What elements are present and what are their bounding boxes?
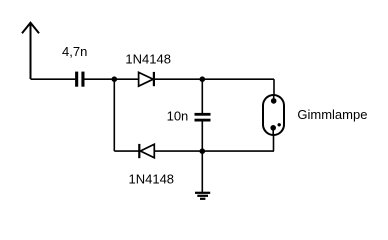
glow lamp LA1 envelope bbox=[263, 95, 284, 135]
wire node B down to C2 bbox=[201, 79, 203, 113]
capacitor C1 bbox=[75, 72, 84, 87]
wire C2 down to bottom wire bbox=[201, 121, 203, 151]
wire left vertical node A to bottom wire bbox=[113, 79, 115, 151]
lamp top electrode dot bbox=[271, 98, 277, 104]
node C junction dot bbox=[200, 148, 206, 154]
antenna symbol bbox=[22, 23, 39, 79]
wire lamp bottom to bottom wire bbox=[273, 135, 275, 151]
wire antenna to C1 bbox=[31, 78, 76, 80]
svg-text:1N4148: 1N4148 bbox=[129, 172, 175, 187]
wire bottom left to D2 bbox=[114, 150, 139, 152]
svg-text:10n: 10n bbox=[167, 108, 189, 123]
node B junction dot bbox=[200, 76, 206, 82]
diode D1 bbox=[139, 72, 154, 86]
lamp bottom electrode dot bbox=[270, 125, 276, 131]
capacitor C2 bbox=[195, 113, 211, 122]
svg-text:Gimmlampe: Gimmlampe bbox=[297, 107, 367, 122]
wire C1 to D1 bbox=[85, 78, 139, 80]
diode D2 bbox=[139, 144, 154, 158]
svg-text:1N4148: 1N4148 bbox=[125, 51, 171, 66]
wire D2 to bottom-right corner bbox=[154, 150, 274, 152]
lamp bottom electrode lead bbox=[272, 128, 274, 135]
node A junction dot bbox=[112, 76, 118, 82]
lamp gas-fill dot bbox=[278, 123, 281, 126]
wire top-right corner down to lamp bbox=[273, 79, 275, 95]
wire node C to ground bbox=[201, 151, 203, 192]
svg-text:4,7n: 4,7n bbox=[62, 44, 87, 59]
ground bbox=[195, 193, 210, 199]
lamp top electrode lead bbox=[273, 95, 275, 100]
wire D1 to top-right corner bbox=[154, 78, 274, 80]
